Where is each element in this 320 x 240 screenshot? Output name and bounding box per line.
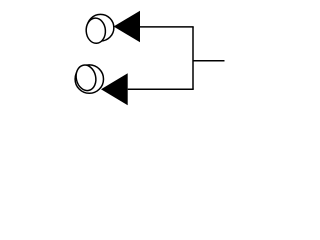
speaker SPK2 back rim — [75, 65, 103, 93]
wire bus vertical — [192, 27, 194, 89]
wire top — [140, 26, 194, 28]
wire output stub — [193, 60, 225, 62]
speaker SPK1 back rim — [87, 14, 114, 41]
wire bottom — [128, 88, 194, 90]
speaker SPK2 front face — [74, 63, 99, 93]
speaker SPK1 front face — [85, 17, 106, 43]
speaker SPK1 cone — [114, 11, 140, 42]
speaker SPK2 cone — [101, 73, 128, 105]
